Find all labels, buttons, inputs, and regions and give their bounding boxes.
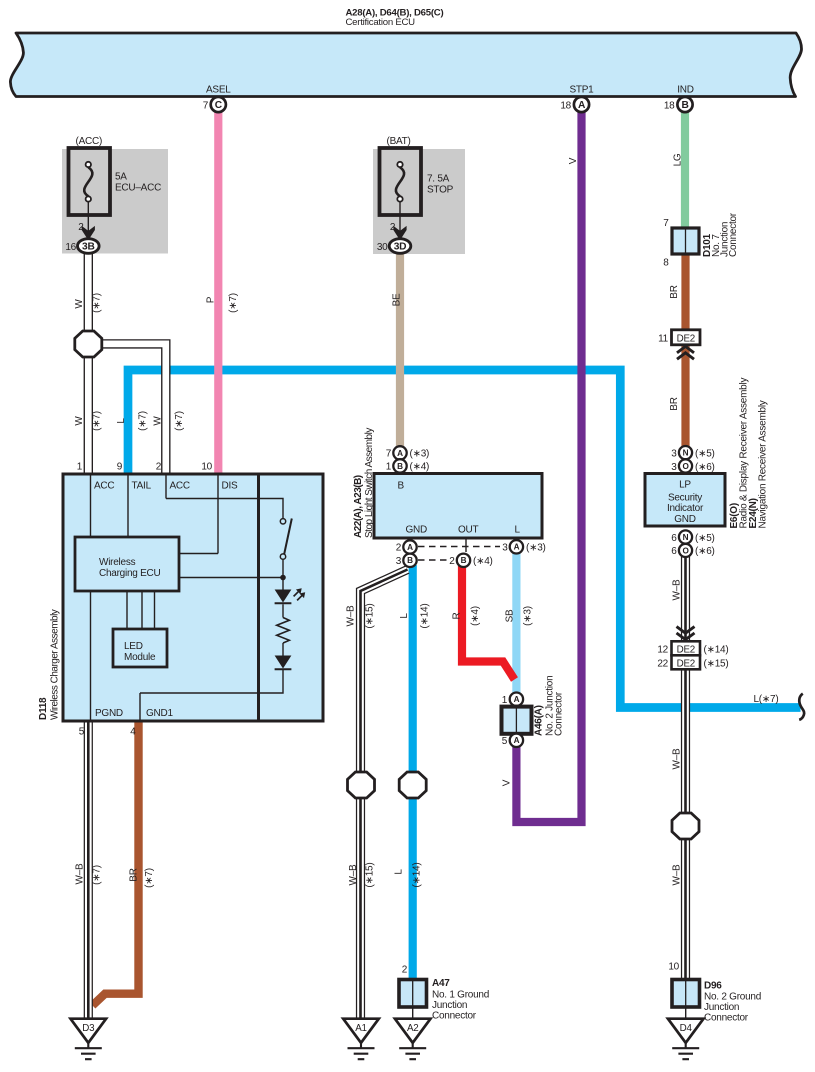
ground symbol D3 (75, 1043, 102, 1059)
svg-text:B: B (407, 556, 413, 565)
svg-text:L: L (515, 525, 521, 536)
bus connector circle A (STP1) (574, 97, 589, 112)
svg-text:No. 1 Ground: No. 1 Ground (432, 990, 489, 1001)
stop light L pin circle 3(A) (510, 540, 523, 553)
svg-text:(∗15): (∗15) (365, 863, 376, 888)
svg-text:B: B (681, 100, 688, 111)
connector oval 3B (78, 239, 100, 254)
svg-text:18: 18 (560, 101, 571, 112)
svg-text:3B: 3B (82, 242, 95, 253)
svg-text:Connector: Connector (704, 1013, 749, 1024)
switch contact in D118 (280, 518, 292, 578)
svg-text:(BAT): (BAT) (387, 136, 411, 147)
svg-text:8: 8 (663, 258, 669, 269)
svg-text:L: L (116, 418, 127, 424)
wire BR brown DE2 to security indicator (681, 344, 689, 447)
svg-text:W–B: W–B (672, 864, 683, 886)
svg-text:(∗14): (∗14) (412, 863, 423, 888)
svg-text:GND: GND (406, 525, 428, 536)
svg-text:ECU–ACC: ECU–ACC (115, 183, 161, 194)
svg-text:A: A (397, 449, 403, 458)
svg-text:(ACC): (ACC) (76, 136, 103, 147)
bus connector circle C (ASEL) (211, 97, 226, 112)
svg-text:PGND: PGND (95, 708, 123, 719)
wire BR brown D101 to DE2 (681, 254, 689, 331)
svg-text:STOP: STOP (427, 185, 454, 196)
svg-text:(∗7): (∗7) (174, 411, 185, 431)
svg-text:3: 3 (396, 556, 402, 567)
LED D1 in D118 (275, 578, 306, 618)
wire W-B double line PGND to D3 (84, 722, 93, 1019)
wire BE beige 3D to stop light switch (396, 253, 404, 447)
svg-text:GND1: GND1 (146, 708, 173, 719)
LED Module box (113, 629, 167, 667)
D101 No.7 Junction Connector box (672, 228, 699, 254)
wire W-B double line security GND to DE2 (681, 556, 690, 642)
octagon junction left (75, 331, 102, 357)
svg-text:6: 6 (671, 546, 677, 557)
svg-text:BR: BR (669, 285, 680, 298)
ground triangle D4 (668, 1019, 704, 1043)
D118 internal divider (257, 474, 260, 721)
svg-text:Indicator: Indicator (667, 503, 704, 514)
svg-text:O: O (682, 546, 689, 555)
D118 internal wire ACC2 to switch (166, 499, 283, 519)
wire W-B double line stop light GND to A1 (361, 570, 408, 1019)
A46 pin circle 1(A) (510, 693, 523, 706)
security indicator pin circle 3(N) (679, 446, 692, 459)
svg-text:7: 7 (663, 218, 669, 229)
svg-text:1: 1 (386, 462, 392, 473)
bus connector circle B (IND) (677, 97, 692, 112)
svg-text:P: P (206, 296, 217, 303)
security GND pin circle 6(O) (679, 544, 692, 557)
svg-text:Junction: Junction (704, 1002, 739, 1013)
svg-text:2: 2 (396, 543, 402, 554)
svg-text:W–B: W–B (348, 864, 359, 886)
svg-text:W–B: W–B (672, 579, 683, 601)
svg-text:5A: 5A (115, 172, 127, 183)
svg-text:(∗4): (∗4) (470, 606, 481, 626)
svg-text:TAIL: TAIL (132, 481, 152, 492)
svg-text:A46(A): A46(A) (534, 705, 545, 736)
svg-text:DE2: DE2 (677, 334, 695, 345)
wire LG green IND to D101 (681, 112, 689, 230)
fuse STOP (380, 148, 422, 240)
svg-text:Charging ECU: Charging ECU (99, 568, 161, 579)
svg-text:BR: BR (129, 868, 140, 881)
svg-text:9: 9 (117, 462, 123, 473)
Stop Light Switch Assembly box (374, 474, 542, 539)
svg-text:Wireless: Wireless (99, 557, 136, 568)
junction dot (280, 575, 286, 581)
octagon junction middle W-B (348, 772, 375, 798)
svg-text:Junction: Junction (432, 1000, 467, 1011)
svg-text:Certification ECU: Certification ECU (346, 17, 416, 28)
svg-text:B: B (398, 481, 405, 492)
fuse block gray background BAT (373, 149, 465, 254)
ground symbol A1 (348, 1043, 375, 1059)
dashed alternative pin links (418, 546, 500, 548)
svg-text:B: B (461, 556, 467, 565)
svg-text:C: C (215, 100, 223, 111)
svg-text:R: R (452, 612, 463, 619)
stop light GND pin circle 3(B) (403, 554, 416, 567)
svg-text:3: 3 (671, 462, 677, 473)
security GND pin circle 6(N) (679, 530, 692, 543)
svg-text:No. 2 Ground: No. 2 Ground (704, 992, 761, 1003)
svg-text:D96: D96 (704, 981, 722, 992)
wire SB skyblue stop light L to A46 (512, 553, 520, 694)
D118 pin cell dividers top (91, 474, 219, 554)
svg-text:L: L (399, 613, 410, 619)
svg-text:(∗14): (∗14) (420, 604, 431, 629)
svg-text:(∗7): (∗7) (144, 868, 155, 888)
ground triangle A1 (343, 1019, 379, 1043)
svg-text:O: O (682, 462, 689, 471)
connector oval 3D (389, 239, 411, 254)
A46 No.2 Junction Connector box (502, 707, 532, 734)
svg-text:(∗6): (∗6) (695, 546, 715, 557)
wire P pink ASEL to D118 pin10 (214, 112, 222, 475)
ground symbol A2 (399, 1043, 426, 1059)
ground symbol D4 (672, 1043, 699, 1059)
svg-text:L(∗7): L(∗7) (754, 694, 779, 705)
Wireless Charging ECU box (75, 537, 179, 591)
svg-text:SB: SB (505, 609, 516, 622)
svg-text:Navigation Receiver Assembly: Navigation Receiver Assembly (758, 400, 769, 528)
svg-text:(∗6): (∗6) (695, 462, 715, 473)
svg-text:Connector: Connector (554, 691, 565, 736)
svg-text:L: L (394, 869, 405, 875)
svg-text:GND: GND (674, 514, 696, 525)
svg-text:18: 18 (664, 101, 675, 112)
svg-text:6: 6 (671, 533, 677, 544)
svg-text:11: 11 (658, 334, 669, 345)
svg-text:V: V (568, 157, 579, 164)
svg-text:A2: A2 (407, 1023, 418, 1034)
svg-text:LP: LP (679, 480, 691, 491)
svg-text:Security: Security (668, 493, 702, 504)
svg-text:10: 10 (668, 962, 679, 973)
Certification ECU bus band (10, 33, 801, 97)
octagon junction right W-B (672, 813, 699, 839)
D118 internal wires ECU to LED module (127, 591, 155, 629)
svg-text:5: 5 (502, 736, 508, 747)
svg-text:W: W (153, 416, 164, 426)
svg-text:B: B (397, 462, 403, 471)
svg-text:A: A (514, 736, 520, 745)
octagon junction middle L (399, 772, 426, 798)
svg-text:3: 3 (671, 448, 677, 459)
svg-text:DE2: DE2 (677, 645, 695, 656)
chevron down mark (677, 627, 695, 640)
svg-text:4: 4 (130, 727, 136, 738)
svg-text:STP1: STP1 (569, 85, 594, 96)
svg-text:N: N (683, 449, 689, 458)
svg-text:Wireless Charger Assembly: Wireless Charger Assembly (50, 609, 61, 720)
D118 pin cell dividers bottom (91, 591, 141, 721)
svg-text:7: 7 (203, 101, 209, 112)
fuse block gray background ACC (62, 149, 168, 254)
svg-text:(∗7): (∗7) (92, 411, 103, 431)
svg-text:A22(A), A23(B): A22(A), A23(B) (353, 475, 364, 538)
svg-text:7. 5A: 7. 5A (427, 174, 450, 185)
svg-text:LED: LED (124, 641, 143, 652)
stop light pin circle 7(A) (393, 446, 406, 459)
svg-text:OUT: OUT (458, 525, 479, 536)
svg-text:1: 1 (502, 695, 508, 706)
svg-text:22: 22 (657, 658, 668, 669)
D118 internal wire DIS to ECU (179, 553, 218, 555)
svg-text:DIS: DIS (222, 481, 239, 492)
svg-text:12: 12 (657, 645, 668, 656)
security indicator pin circle 3(O) (679, 459, 692, 472)
svg-text:5: 5 (79, 727, 85, 738)
svg-text:2: 2 (156, 462, 162, 473)
wire BR brown GND1 to ground merge (93, 722, 139, 1006)
svg-text:W: W (74, 416, 85, 426)
svg-text:(∗4): (∗4) (473, 556, 493, 567)
svg-text:7: 7 (386, 449, 392, 460)
stop light OUT pin circle 2(B) (457, 554, 470, 567)
wire R red stop light OUT joining SB (462, 566, 515, 680)
svg-text:(∗7): (∗7) (92, 293, 103, 313)
svg-text:BR: BR (669, 397, 680, 410)
svg-text:3D: 3D (394, 242, 407, 253)
fuse ECU-ACC (69, 148, 111, 240)
svg-text:10: 10 (201, 462, 212, 473)
svg-text:Module: Module (124, 652, 156, 663)
svg-text:A: A (514, 543, 520, 552)
svg-text:W–B: W–B (346, 605, 357, 627)
splice box 12 DE2 (672, 641, 701, 655)
stop light pin circle 1(B) (393, 459, 406, 472)
svg-text:ACC: ACC (170, 481, 190, 492)
svg-text:(∗3): (∗3) (523, 606, 534, 626)
svg-text:(∗5): (∗5) (695, 533, 715, 544)
svg-text:D3: D3 (82, 1023, 95, 1034)
A46 pin circle 5(A) (510, 734, 523, 747)
svg-text:(∗3): (∗3) (526, 543, 546, 554)
svg-text:D118: D118 (38, 697, 49, 720)
svg-text:W–B: W–B (75, 863, 86, 885)
resistor in D118 (277, 618, 290, 644)
svg-text:2: 2 (402, 965, 408, 976)
svg-text:16: 16 (65, 242, 76, 253)
svg-text:(∗15): (∗15) (704, 658, 729, 669)
svg-text:(∗3): (∗3) (410, 449, 430, 460)
svg-text:A1: A1 (355, 1023, 366, 1034)
D118 internal wire ECU to LED node (179, 577, 283, 579)
svg-text:W: W (74, 299, 85, 309)
svg-text:W–B: W–B (672, 748, 683, 770)
svg-text:A47: A47 (432, 978, 450, 989)
svg-text:D4: D4 (680, 1023, 693, 1034)
Security Indicator box (645, 474, 725, 527)
stop light GND pin circle 2(A) (403, 540, 416, 553)
svg-text:Connector: Connector (728, 212, 739, 257)
svg-text:Connector: Connector (432, 1011, 477, 1022)
wire V purple STP1 to A46 (516, 112, 581, 823)
svg-text:(∗14): (∗14) (704, 645, 729, 656)
svg-text:30: 30 (377, 242, 388, 253)
wire L blue main: pin9 up, across, down, right to break (128, 370, 801, 708)
ground triangle A2 (395, 1019, 431, 1043)
svg-text:A: A (407, 543, 413, 552)
D118 internal LED return to GND1 (140, 670, 283, 693)
svg-text:(∗7): (∗7) (92, 865, 103, 885)
svg-text:(∗4): (∗4) (410, 462, 430, 473)
svg-text:ACC: ACC (94, 481, 114, 492)
chevron up mark (677, 346, 694, 359)
svg-text:(∗5): (∗5) (695, 448, 715, 459)
svg-text:Stop Light Switch Assembly: Stop Light Switch Assembly (364, 428, 375, 538)
svg-text:ASEL: ASEL (206, 85, 231, 96)
svg-text:N: N (683, 533, 689, 542)
svg-text:(∗15): (∗15) (365, 604, 376, 629)
svg-text:(∗7): (∗7) (138, 411, 149, 431)
wire W double line octagon to pin2 (99, 344, 166, 474)
svg-text:V: V (502, 779, 513, 786)
svg-text:3: 3 (502, 543, 508, 554)
LED D2 in D118 (275, 643, 292, 669)
svg-text:(∗7): (∗7) (228, 293, 239, 313)
svg-text:A: A (514, 695, 520, 704)
splice box 22 DE2 (672, 655, 701, 669)
splice box 11 DE2 (672, 330, 701, 345)
wire W double line 3B to octagon (84, 253, 93, 475)
ground triangle D3 (71, 1019, 107, 1043)
svg-text:BE: BE (392, 293, 403, 306)
svg-text:2: 2 (449, 556, 455, 567)
svg-text:IND: IND (677, 85, 694, 96)
wire W-B double line DE2 to D96 (681, 669, 690, 980)
svg-text:A: A (578, 100, 586, 111)
D118 Wireless Charger Assembly box (63, 474, 323, 721)
svg-text:1: 1 (77, 462, 83, 473)
svg-text:DE2: DE2 (677, 658, 695, 669)
svg-text:LG: LG (673, 153, 684, 166)
wire L blue to A47 (409, 565, 417, 980)
